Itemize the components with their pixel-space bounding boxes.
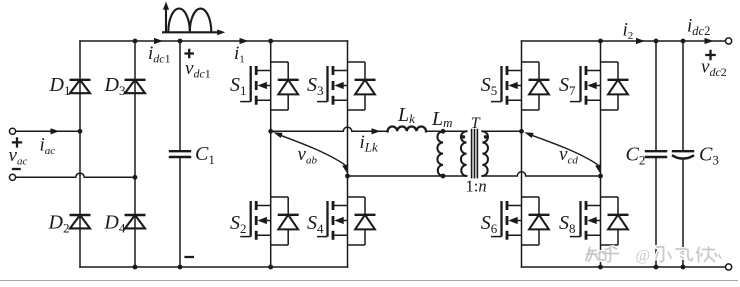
capacitor C2 bbox=[646, 151, 666, 157]
node: AC top to bridge leg bbox=[78, 129, 83, 134]
polarity sign + (v_dc1) bbox=[184, 49, 194, 59]
wire C1 branch bbox=[179, 41, 181, 267]
arrow i_ac bbox=[51, 128, 60, 134]
transformer T primary winding bbox=[461, 131, 467, 176]
transformer secondary polarity dot bbox=[484, 135, 488, 139]
wire node a to transformer with hop over S3 leg bbox=[271, 127, 388, 131]
node: C1 bottom junction bbox=[178, 265, 183, 270]
transistor S1 bbox=[240, 62, 299, 110]
transistor S4 bbox=[317, 197, 376, 245]
wire diode-bridge left leg bbox=[79, 41, 81, 267]
transistor S2 bbox=[240, 197, 299, 245]
svg-text:@: @ bbox=[636, 248, 651, 265]
transformer T secondary winding bbox=[482, 131, 488, 176]
node b bbox=[345, 174, 350, 179]
svg-text:T: T bbox=[471, 115, 481, 132]
arrow i_dc1 bbox=[154, 38, 163, 44]
arrow i_dc2 bbox=[705, 38, 714, 44]
transformer primary polarity dot bbox=[462, 135, 466, 139]
inductor Lm (magnetizing) bbox=[437, 131, 443, 176]
terminal: output + bbox=[726, 38, 732, 44]
terminal: AC source + bbox=[9, 128, 15, 134]
terminal: AC source - bbox=[9, 174, 15, 180]
diode D3 bbox=[125, 80, 146, 93]
wire transformer secondary bottom to node d with hop over S6 leg bbox=[482, 172, 600, 176]
node: C3 bottom junction bbox=[681, 265, 686, 270]
node: C2 top junction bbox=[654, 39, 659, 44]
wire Lk to Lm node bbox=[426, 130, 467, 132]
diode D4 bbox=[125, 215, 146, 228]
transistor S6 bbox=[491, 197, 550, 245]
transistor S3 bbox=[317, 62, 376, 110]
transistor S8 bbox=[570, 197, 629, 245]
wire transformer secondary top to node c bbox=[482, 130, 521, 132]
wire bridge2 left leg (S5/S6) bbox=[521, 41, 523, 267]
wire bottom rail right bbox=[522, 266, 726, 268]
wire C3 branch bbox=[682, 41, 684, 267]
arrow i_2 bbox=[636, 38, 645, 44]
terminal: output - bbox=[726, 264, 732, 270]
node: D3 leg top junction bbox=[133, 39, 138, 44]
transformer core bbox=[472, 130, 478, 178]
watermark: Zhihu user tag (hand-drawn CJK strokes) bbox=[586, 247, 721, 265]
node a bbox=[268, 129, 273, 134]
polarity sign - (v_ac) bbox=[12, 168, 21, 170]
node: S2 leg bottom junction bbox=[268, 265, 273, 270]
polarity sign + (v_ac) bbox=[12, 137, 22, 147]
arrow i_Lk bbox=[372, 128, 381, 134]
transistor S5 bbox=[491, 62, 550, 110]
wire AC source bottom lead with hop over left leg bbox=[16, 173, 135, 177]
rectified sine waveform icon bbox=[162, 2, 225, 36]
node: C2 bottom junction bbox=[654, 265, 659, 270]
node: S7 leg top junction bbox=[598, 39, 603, 44]
transistor S7 bbox=[570, 62, 629, 110]
wire C2 branch bbox=[655, 41, 657, 267]
polarity sign + (v_dc2) bbox=[705, 50, 716, 61]
wire node b to transformer primary bottom bbox=[348, 175, 467, 177]
node: Lm bottom junction bbox=[441, 174, 446, 179]
node: C3 top junction bbox=[681, 39, 686, 44]
arrow v_cd (curved, node c to node d) bbox=[524, 132, 601, 173]
wire AC source top lead bbox=[16, 130, 80, 132]
arrow v_ab (curved, node a to node b) bbox=[273, 132, 348, 173]
arrow i_1 bbox=[240, 38, 249, 44]
wire bridge1 right leg (S3/S4) bbox=[347, 41, 349, 267]
bottom hairline rule bbox=[0, 280, 738, 282]
node: AC bottom to bridge leg bbox=[133, 175, 138, 180]
wire bridge1 left leg (S1/S2) bbox=[270, 41, 272, 267]
wire top rail right (second bridge to output terminal) bbox=[522, 40, 726, 42]
inductor Lk bbox=[388, 126, 426, 131]
wire top rail left (diode bridge to first bridge) bbox=[80, 40, 348, 42]
diode D1 bbox=[70, 80, 91, 93]
node: S8 leg bottom junction bbox=[598, 265, 603, 270]
capacitor C3 (polarized, curved bottom plate) bbox=[673, 151, 693, 158]
wire diode-bridge right leg bbox=[134, 41, 136, 267]
svg-text:1:n: 1:n bbox=[466, 177, 487, 196]
node: S1 leg top junction bbox=[268, 39, 273, 44]
node: C1 top junction bbox=[178, 39, 183, 44]
capacitor C1 bbox=[170, 151, 190, 157]
node d bbox=[598, 174, 603, 179]
node: Lm top junction bbox=[441, 129, 446, 134]
diode D2 bbox=[70, 215, 91, 228]
wire bottom rail left bbox=[80, 266, 348, 268]
node c bbox=[519, 129, 524, 134]
polarity sign - (v_dc1) bbox=[184, 256, 194, 258]
wire bridge2 right leg (S7/S8) bbox=[600, 41, 602, 267]
node: D4 leg bottom junction bbox=[133, 265, 138, 270]
